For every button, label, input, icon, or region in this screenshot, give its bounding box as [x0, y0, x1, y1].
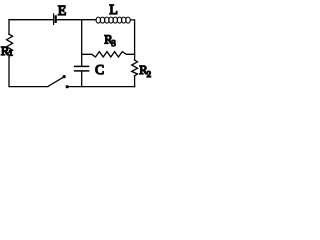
label R2: [139, 63, 151, 79]
middle branch wire upper (node to capacitor): [81, 20, 83, 66]
capacitor C: [75, 66, 89, 71]
svg-text:1: 1: [9, 47, 13, 57]
resistor R2: [132, 60, 138, 76]
wire top-right corner: [131, 20, 135, 60]
middle branch wire lower (capacitor to bottom wire): [81, 72, 83, 87]
label R3: [104, 32, 116, 48]
svg-text:3: 3: [111, 38, 116, 48]
switch blade tip dot: [63, 75, 66, 78]
wire left lower segment + bottom-left: [9, 57, 48, 86]
svg-text:2: 2: [147, 69, 151, 79]
switch S blade: [48, 77, 64, 86]
label R1: [1, 44, 13, 58]
resistor R3: [82, 52, 135, 57]
switch fixed contact dot: [66, 85, 69, 88]
wire top-left + left wire upper segment: [9, 20, 53, 35]
svg-text:E: E: [58, 4, 67, 19]
resistor R1: [7, 34, 13, 57]
svg-text:L: L: [109, 3, 118, 18]
wire right lower segment: [134, 76, 136, 87]
inductor L: [96, 17, 130, 23]
svg-text:C: C: [95, 62, 104, 77]
battery E: [54, 14, 56, 24]
wire bottom middle (switch to right corner): [69, 86, 135, 88]
wire top middle (battery to inductor, passing node at x=81.7): [57, 19, 96, 21]
